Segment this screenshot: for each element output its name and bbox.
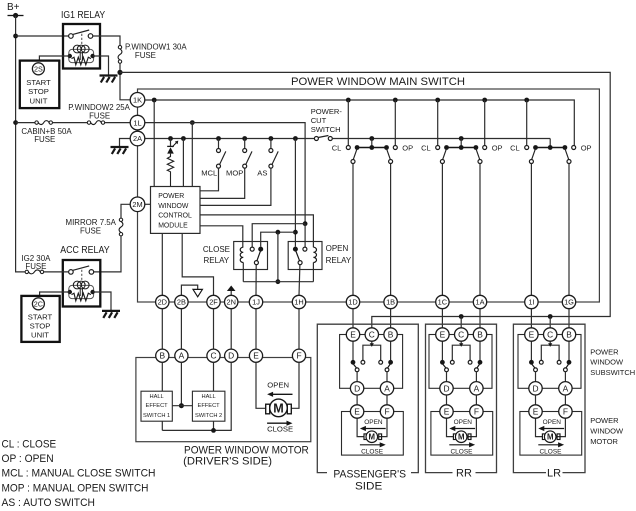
RR subswitch common right xyxy=(475,368,479,372)
svg-text:2M: 2M xyxy=(132,200,142,209)
wire motor E lead RR xyxy=(447,418,454,436)
hall effect switch 1 box xyxy=(141,391,172,421)
junction 1L / relay NO contacts xyxy=(303,221,308,226)
connector pin D (RR sub) xyxy=(440,382,453,395)
wire 1K rail to g1 CL contact xyxy=(347,100,349,146)
junction 2A rail / module feed xyxy=(181,136,186,141)
connector pin F (LR motor) xyxy=(559,405,572,418)
hall effect switch 2 box xyxy=(192,391,225,421)
wire B drop LR xyxy=(568,341,570,360)
fuse MIRROR 7.5A xyxy=(119,218,122,221)
junction arrow C branch passenger xyxy=(370,343,374,347)
module POWER WINDOW CONTROL MODULE box xyxy=(151,187,201,234)
svg-text:1A: 1A xyxy=(475,298,484,307)
wire open relay common to 1H xyxy=(298,265,301,296)
connector pin D (driver unit) xyxy=(225,349,238,362)
svg-text:1I: 1I xyxy=(528,298,534,307)
svg-text:POWER: POWER xyxy=(158,193,184,200)
wire CABIN fuse to PW2 fuse xyxy=(53,122,87,124)
svg-text:1H: 1H xyxy=(294,298,303,307)
svg-text:MODULE: MODULE xyxy=(158,222,188,229)
wire 1L rail to relays xyxy=(145,123,306,224)
wire C branch LR xyxy=(549,341,551,345)
junction 1K rail / g3 CL xyxy=(524,98,529,103)
svg-text:2D: 2D xyxy=(158,298,167,307)
connector pin 2N xyxy=(225,295,238,308)
svg-text:SWITCH: SWITCH xyxy=(311,125,341,134)
junction arrow C branch RR xyxy=(459,343,463,347)
svg-text:STOP: STOP xyxy=(28,87,49,96)
wire IG1 coil to 2S unit xyxy=(39,56,69,61)
motor M (driver side) xyxy=(270,399,288,417)
wire pin column x=569.0 to subswitch xyxy=(568,309,570,328)
connector pin E (passenger sub) xyxy=(346,328,359,341)
wire IG2 fuse to ACC contact xyxy=(44,271,69,273)
switch g2 lower contact left xyxy=(440,160,444,164)
wire 2A rail xyxy=(145,138,315,140)
svg-text:OPEN: OPEN xyxy=(454,419,473,426)
switch g3 lower contact right xyxy=(567,160,571,164)
svg-text:START: START xyxy=(26,78,51,87)
svg-text:MOP : MANUAL OPEN SWITCH: MOP : MANUAL OPEN SWITCH xyxy=(2,482,149,494)
wire motor F lead LR xyxy=(557,418,565,436)
RR subswitch NO contact right xyxy=(468,360,472,364)
connector pin 1G xyxy=(562,295,575,308)
RR subswitch NO contact left xyxy=(450,360,454,364)
relay OPEN blade xyxy=(296,251,300,261)
switch g1 rocker bar xyxy=(357,147,386,149)
wire 2A rail to LED xyxy=(170,139,172,147)
wire common left to D RR xyxy=(446,372,448,382)
power window main switch box xyxy=(138,89,600,302)
junction B+ to CABIN fuse xyxy=(13,120,18,125)
junction B+ to IG1 relay xyxy=(13,34,18,39)
wire pin column x=531.4 to subswitch xyxy=(530,309,532,328)
svg-text:FUSE: FUSE xyxy=(89,112,110,121)
svg-text:D: D xyxy=(532,383,538,393)
LR subswitch blade right xyxy=(566,364,569,368)
svg-text:E: E xyxy=(354,407,360,417)
wire 2M to mirror fuse xyxy=(121,204,130,218)
wire module to close relay coil xyxy=(200,226,243,247)
connector pin C (RR sub) xyxy=(455,328,468,341)
wire ground riser (2A rail to open relay NC) xyxy=(294,139,296,247)
relay IG1 coil xyxy=(69,49,94,62)
connector pin E (LR motor) xyxy=(529,405,542,418)
svg-text:SWITCH 1: SWITCH 1 xyxy=(143,413,170,419)
LR harness outline xyxy=(513,324,585,472)
relay ACC actuator dashed link xyxy=(81,270,83,281)
wire rail after power-cut switch xyxy=(332,138,550,140)
switch g1 CL contact xyxy=(346,146,350,150)
motor brushes (LR) xyxy=(542,434,545,440)
relay CLOSE coil xyxy=(240,247,243,262)
svg-text:CL: CL xyxy=(510,143,520,152)
junction arrow C branch LR xyxy=(548,343,552,347)
relay CLOSE NC contact xyxy=(258,247,263,252)
junction 2A rail / LED branch xyxy=(168,136,173,141)
LR subswitch NC contact left xyxy=(529,360,534,365)
wire pin column x=353.0 to subswitch xyxy=(352,309,354,328)
unit 2C start/stop box xyxy=(21,296,59,342)
switch AS lower contact xyxy=(269,164,273,168)
svg-text:B: B xyxy=(477,330,483,340)
svg-text:LR: LR xyxy=(547,467,561,479)
svg-text:FUSE: FUSE xyxy=(34,135,55,144)
svg-text:CONTROL: CONTROL xyxy=(158,213,192,220)
switch MOP lower contact xyxy=(243,164,247,168)
wire IG1 coil to ground xyxy=(93,56,109,75)
arrow open (passenger) xyxy=(365,428,386,430)
arrow open direction (driver) xyxy=(272,393,292,395)
svg-text:A: A xyxy=(384,383,390,393)
switch g3 OP contact xyxy=(572,146,576,150)
passenger subswitch NO contact right xyxy=(379,360,383,364)
svg-text:RR: RR xyxy=(456,467,472,479)
wire hall bottom bus xyxy=(162,362,231,430)
switch MOP blade xyxy=(246,151,252,164)
switch g2 rocker bar xyxy=(447,147,476,149)
svg-text:CUT: CUT xyxy=(311,116,327,125)
wire 1K rail xyxy=(145,100,575,146)
RR motor box xyxy=(431,412,493,456)
RR subswitch common left xyxy=(445,368,449,372)
svg-text:CL: CL xyxy=(421,143,431,152)
passenger motor box xyxy=(342,412,404,456)
connector pin E (driver unit) xyxy=(249,349,262,362)
wire mirror fuse to ACC relay xyxy=(94,236,121,272)
svg-text:PASSENGER'S: PASSENGER'S xyxy=(333,469,406,481)
connector pin E (passenger motor) xyxy=(350,405,363,418)
wire feed stub LR xyxy=(549,317,551,328)
motor M (RR) xyxy=(455,431,467,443)
svg-text:E: E xyxy=(444,407,450,417)
svg-text:SIDE: SIDE xyxy=(355,481,383,493)
relay IG1 contact right xyxy=(88,34,93,39)
RR subswitch blade right xyxy=(477,364,480,368)
wire B drop passenger xyxy=(390,341,392,360)
svg-text:E: E xyxy=(253,351,259,361)
junction 1K rail / g1 CL xyxy=(346,98,351,103)
relay ACC box xyxy=(63,260,101,307)
connector pin F (driver unit) xyxy=(292,349,305,362)
fuse CABIN+B 50A xyxy=(35,121,38,124)
switch g2 rocker contacts xyxy=(444,145,449,150)
svg-text:M: M xyxy=(547,433,554,442)
junction feed to LR subswitch xyxy=(548,314,553,319)
switch MCL blade xyxy=(220,151,226,164)
wire 1L to close relay NO xyxy=(252,224,305,247)
wire hall1 bottom xyxy=(161,421,163,430)
svg-text:ACC RELAY: ACC RELAY xyxy=(60,245,110,256)
relay CLOSE NO contact xyxy=(250,247,254,251)
junction coil common xyxy=(276,279,281,284)
connector pin E (LR sub) xyxy=(525,328,538,341)
RR harness outline xyxy=(426,324,497,472)
wire common left to D passenger xyxy=(356,372,358,382)
connector pin 1A xyxy=(473,295,486,308)
connector pin E (RR motor) xyxy=(440,405,453,418)
fuse P.WINDOW2 25A xyxy=(87,121,90,124)
wire common right to A passenger xyxy=(386,372,388,382)
connector pin E (RR sub) xyxy=(436,328,449,341)
connector pin C (LR sub) xyxy=(544,328,557,341)
svg-text:WINDOW: WINDOW xyxy=(158,203,189,210)
svg-text:1C: 1C xyxy=(438,298,448,307)
relay OPEN coil xyxy=(313,247,316,262)
motor M driver brush right xyxy=(287,404,291,414)
wire g3 CL output down xyxy=(530,164,532,296)
junction ground riser / NC tie xyxy=(293,230,298,235)
svg-text:1G: 1G xyxy=(564,298,574,307)
svg-text:AS: AS xyxy=(257,168,267,177)
junction rail / g2 rocker xyxy=(459,136,464,141)
svg-text:MCL : MANUAL CLOSE SWITCH: MCL : MANUAL CLOSE SWITCH xyxy=(2,468,156,480)
svg-text:MOTOR: MOTOR xyxy=(590,437,618,446)
svg-text:UNIT: UNIT xyxy=(30,96,48,105)
wire B+ to IG1 relay contact xyxy=(16,35,69,37)
relay IG1 actuator dashed link xyxy=(81,34,83,44)
connector pin B (passenger sub) xyxy=(384,328,397,341)
wire A to hall link xyxy=(180,362,182,405)
svg-text:CLOSE: CLOSE xyxy=(203,245,230,254)
svg-text:E: E xyxy=(529,330,535,340)
wire C branch passenger xyxy=(371,341,373,345)
junction feed to RR subswitch xyxy=(459,314,464,319)
wire coil common line xyxy=(243,281,313,283)
junction 2A rail / AS xyxy=(269,136,274,141)
wire 2B to arrow symbol xyxy=(181,285,197,295)
wire 1K rail to g1 OP contact xyxy=(394,100,396,146)
LR subswitch NO contact left xyxy=(539,360,543,364)
wire F to motor xyxy=(291,362,299,408)
ground (2A main switch) xyxy=(111,146,129,148)
switch g1 blade left xyxy=(353,149,357,160)
wire pin column x=181.4 to motor unit xyxy=(180,309,182,351)
switch g3 blade left xyxy=(532,149,536,160)
wire motor E lead passenger xyxy=(357,418,364,436)
LR subswitch blade left xyxy=(532,364,535,368)
wire rail stub to g1 rocker xyxy=(371,139,373,146)
svg-text:EFFECT: EFFECT xyxy=(146,403,169,409)
wire common left to D LR xyxy=(535,372,537,382)
relay OPEN common contact xyxy=(298,261,302,265)
wire 1K rail to g3 CL contact xyxy=(526,100,528,146)
svg-text:C: C xyxy=(210,351,216,361)
connector pin 1C xyxy=(436,295,449,308)
wire IG1 contact to fuse xyxy=(93,36,120,46)
connector pin A (passenger sub) xyxy=(380,382,393,395)
wire A to motor F passenger xyxy=(386,395,388,405)
svg-text:FUSE: FUSE xyxy=(135,51,156,60)
wire 2N arrow stub xyxy=(230,291,232,296)
svg-text:MCL: MCL xyxy=(201,168,217,177)
svg-text:B: B xyxy=(160,351,166,361)
relay OPEN NC contact xyxy=(293,247,298,252)
ground (IG1 relay coil) xyxy=(100,74,118,76)
wire PW2 fuse to 1L xyxy=(105,122,130,124)
svg-text:OPEN: OPEN xyxy=(364,419,383,426)
switch MOP upper contact xyxy=(243,149,247,153)
wire 2A rail to MCL switch xyxy=(218,139,220,149)
svg-text:2F: 2F xyxy=(209,298,218,307)
LED arrow xyxy=(172,142,177,147)
connector pin 2A xyxy=(130,131,145,146)
svg-text:F: F xyxy=(474,407,479,417)
passenger harness outline xyxy=(317,324,418,472)
svg-text:UNIT: UNIT xyxy=(31,331,49,340)
passenger subswitch NC contact right xyxy=(388,360,393,365)
wire B to hall1 xyxy=(161,362,163,391)
switch MCL lower contact xyxy=(217,164,221,168)
connector pin C (driver unit) xyxy=(207,349,220,362)
junction 2A rail / MCL xyxy=(216,136,221,141)
svg-text:SWITCH 2: SWITCH 2 xyxy=(195,413,222,419)
wire pin column x=442.4 to subswitch xyxy=(441,309,443,328)
svg-text:WINDOW: WINDOW xyxy=(590,427,624,436)
relay ACC contact right xyxy=(89,270,94,275)
motor M (passenger) xyxy=(366,431,378,443)
unit 2S start/stop box xyxy=(20,61,60,109)
svg-text:M: M xyxy=(458,433,465,442)
connector pin 1H xyxy=(292,295,305,308)
connector pin 1I xyxy=(525,295,538,308)
svg-text:(DRIVER'S SIDE): (DRIVER'S SIDE) xyxy=(183,456,272,468)
svg-text:B: B xyxy=(388,330,394,340)
wire C branch RR xyxy=(460,341,462,345)
passenger subswitch blade right xyxy=(387,364,390,368)
svg-text:SUBSWITCH: SUBSWITCH xyxy=(590,368,635,377)
wire motor F lead RR xyxy=(468,418,476,436)
wire common right to A LR xyxy=(564,372,566,382)
relay OPEN box xyxy=(288,242,322,270)
arrow open (LR) xyxy=(543,428,564,430)
LR subswitch common left xyxy=(534,368,538,372)
battery B+ terminal xyxy=(8,15,24,17)
wire g2 CL output down xyxy=(441,164,443,296)
RR subswitch blade left xyxy=(443,364,446,368)
svg-text:FUSE: FUSE xyxy=(80,226,101,235)
wire pin column x=299.0 to motor unit xyxy=(298,309,300,351)
arrow close (LR) xyxy=(538,444,559,446)
relay ACC blade xyxy=(73,266,89,270)
wire pin column x=390.6 to subswitch xyxy=(390,309,392,328)
relay CLOSE blade xyxy=(257,251,261,261)
passenger subswitch blade left xyxy=(354,364,357,368)
driver motor unit box xyxy=(136,358,311,442)
wire motor F lead passenger xyxy=(379,418,387,436)
wire NC tie line xyxy=(261,232,296,246)
wire B+ feed loop to subswitches xyxy=(120,72,610,328)
svg-text:C: C xyxy=(547,330,553,340)
svg-text:F: F xyxy=(384,407,389,417)
wire 1K rail to g2 OP contact xyxy=(484,100,486,146)
svg-text:EFFECT: EFFECT xyxy=(198,403,221,409)
svg-text:CLOSE: CLOSE xyxy=(267,425,293,434)
wire g1 CL output down xyxy=(352,164,354,296)
wire 2M to module xyxy=(145,203,151,205)
motor M driver brush left xyxy=(266,404,270,414)
wire module to 2D xyxy=(161,233,163,295)
arrow close (RR) xyxy=(449,444,470,446)
junction 1K rail / g2 CL xyxy=(435,98,440,103)
svg-text:START: START xyxy=(28,312,53,321)
svg-text:CLOSE: CLOSE xyxy=(450,448,473,455)
svg-text:2N: 2N xyxy=(226,298,235,307)
RR subswitch box xyxy=(429,335,492,389)
switch g3 blade right xyxy=(565,149,569,160)
wire 1L rail to module xyxy=(191,123,193,187)
svg-text:MOP: MOP xyxy=(226,168,243,177)
wire 2A to ground xyxy=(120,139,131,147)
junction A / hall link xyxy=(179,403,184,408)
svg-text:2C: 2C xyxy=(34,299,43,308)
wire fuse PW1 down to 1K xyxy=(120,63,130,100)
fuse IG2 30A xyxy=(25,270,28,273)
svg-text:POWER: POWER xyxy=(590,416,619,425)
svg-text:E: E xyxy=(350,330,356,340)
junction 1L rail / module riser xyxy=(190,120,195,125)
svg-text:POWER: POWER xyxy=(590,347,619,356)
connector pin D (passenger sub) xyxy=(350,382,363,395)
wire AS to module xyxy=(200,168,271,205)
svg-text:M: M xyxy=(369,433,376,442)
switch AS upper contact xyxy=(269,149,273,153)
resistor R (LED series) xyxy=(167,154,173,187)
svg-text:1D: 1D xyxy=(348,298,357,307)
wire hall2 bottom xyxy=(213,421,215,430)
switch AS blade xyxy=(272,151,278,164)
wire 2A rail to module a xyxy=(182,139,184,187)
svg-text:A: A xyxy=(563,383,569,393)
switch g1 rocker contacts xyxy=(355,145,360,150)
junction 1K rail / g2 OP xyxy=(482,98,487,103)
svg-text:C: C xyxy=(369,330,375,340)
wire D to motor E RR xyxy=(446,395,448,405)
svg-text:B: B xyxy=(566,330,572,340)
wire E drop RR xyxy=(441,341,443,360)
junction NC tie / coil common xyxy=(276,230,281,235)
svg-text:1B: 1B xyxy=(386,298,395,307)
passenger subswitch NO contact left xyxy=(361,360,365,364)
junction 2A rail / MOP xyxy=(242,136,247,141)
svg-text:POWER WINDOW MAIN SWITCH: POWER WINDOW MAIN SWITCH xyxy=(291,76,465,88)
switch g2 OP contact xyxy=(483,146,487,150)
connector pin A (RR sub) xyxy=(470,382,483,395)
switch g3 lower contact left xyxy=(529,160,533,164)
wire B+ left rail xyxy=(16,16,25,272)
ground (ACC relay coil) xyxy=(102,310,120,312)
switch g2 lower contact right xyxy=(478,160,482,164)
wire g1 OP output down xyxy=(390,164,392,296)
wire ACC coil to 2C unit xyxy=(40,292,70,296)
motor M (LR) xyxy=(544,431,556,443)
svg-text:E: E xyxy=(533,407,539,417)
LR subswitch NO contact right xyxy=(557,360,561,364)
switch g1 lower contact right xyxy=(389,160,393,164)
junction PW1 fuse / B+ feed xyxy=(117,70,122,75)
switch g1 blade right xyxy=(387,149,391,160)
wire open coil bottom xyxy=(312,263,314,282)
svg-text:OPEN: OPEN xyxy=(326,244,349,253)
relay IG1 contact left xyxy=(69,34,74,39)
wire 1K rail to module xyxy=(153,100,155,187)
switch g3 rocker contacts xyxy=(533,145,538,150)
svg-text:OP: OP xyxy=(581,143,592,152)
switch g3 rocker bar xyxy=(536,147,565,149)
symbol solid arrow (2N) xyxy=(227,286,236,292)
wire 2A rail to AS switch xyxy=(270,139,272,149)
